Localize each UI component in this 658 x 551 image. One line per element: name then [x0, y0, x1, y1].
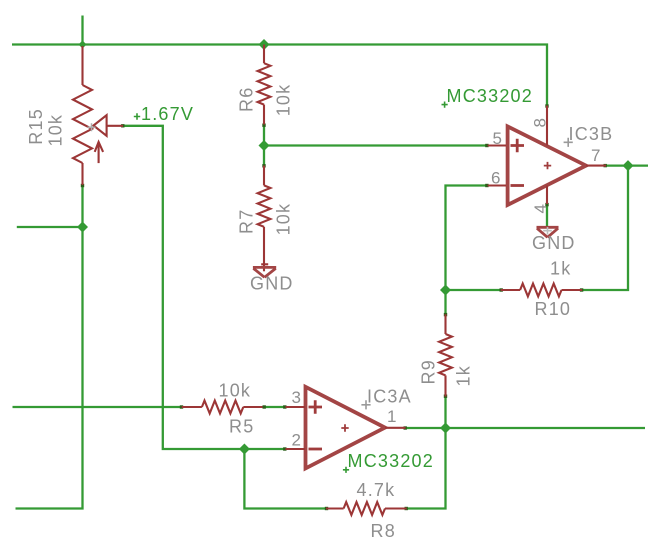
svg-text:MC33202: MC33202	[447, 86, 533, 106]
resistor R6	[258, 45, 271, 125]
resistor R7	[258, 166, 271, 272]
svg-text:1k: 1k	[454, 365, 474, 386]
svg-text:R9: R9	[419, 359, 439, 384]
junction D (264,145.5)	[259, 140, 270, 151]
wire endpoint dots	[81, 104, 607, 510]
junction A (82.5,44.5)	[79, 41, 87, 49]
wire left stub at y=227	[17, 226, 83, 228]
label +1.67V net	[134, 113, 140, 119]
op-amp U IC3B	[488, 106, 606, 205]
svg-text:5: 5	[493, 129, 503, 148]
junction B (264,44.5)	[259, 39, 270, 50]
wire IC3B output feedback down to R10 right	[582, 166, 628, 290]
svg-text:4: 4	[531, 204, 550, 214]
op-amp IC3B value label MC33202	[442, 102, 448, 108]
wire IC3B pin 4 to GND	[546, 204, 548, 228]
resistor R10	[501, 284, 583, 297]
svg-text:R10: R10	[535, 299, 572, 319]
wire left horizontal into R5	[13, 406, 182, 408]
svg-text:GND: GND	[532, 233, 576, 253]
svg-text:1k: 1k	[550, 259, 571, 279]
svg-text:MC33202: MC33202	[348, 451, 434, 471]
svg-text:R8: R8	[371, 521, 396, 541]
svg-text:10k: 10k	[46, 114, 66, 147]
svg-text:GND: GND	[250, 274, 294, 294]
op-amp U IC3A	[286, 387, 406, 469]
ground symbol under IC3B pin 4	[537, 227, 559, 237]
resistor R9	[439, 314, 452, 396]
svg-text:10k: 10k	[219, 381, 252, 401]
wire IC3B pin 6 down to R9/R10 node	[446, 186, 488, 291]
svg-text:3: 3	[292, 388, 302, 407]
wire R5 to IC3A pin 3	[264, 406, 286, 408]
svg-text:IC3A: IC3A	[367, 387, 412, 407]
wire node to IC3B pin 5	[264, 144, 488, 146]
svg-text:R6: R6	[237, 87, 257, 112]
resistor R8	[326, 502, 407, 515]
wire node to R10 left	[446, 289, 501, 291]
wire node to R9 top	[444, 290, 446, 314]
svg-text:1: 1	[387, 407, 397, 426]
wire top stub above junction A	[81, 16, 83, 45]
wire left vertical below R15 down to bottom-left stub	[16, 185, 83, 509]
svg-text:2: 2	[292, 430, 302, 449]
svg-text:R15: R15	[26, 108, 46, 145]
svg-text:10k: 10k	[274, 203, 294, 236]
wire R6 bottom to junction node	[263, 125, 265, 166]
junction H (244.4,449)	[239, 444, 250, 455]
junction G (445.5,428)	[440, 423, 451, 434]
op-amp IC3B name label	[564, 138, 573, 147]
wire IC3A output to right edge	[405, 427, 645, 429]
svg-text:IC3B: IC3B	[569, 124, 614, 144]
junction E (445.5,290)	[440, 285, 451, 296]
svg-text:8: 8	[530, 118, 549, 128]
svg-text:1.67V: 1.67V	[141, 104, 194, 124]
op-amp IC3A name label	[361, 400, 370, 409]
svg-text:7: 7	[591, 146, 601, 165]
wire IC3B output to right edge	[605, 164, 648, 166]
potentiometer R15	[73, 46, 123, 185]
wire 1.67V net from wiper to IC3A pin 2	[123, 126, 286, 449]
svg-text:6: 6	[491, 169, 501, 188]
wire R9 bottom to output node	[444, 397, 446, 429]
wire feedback from pin2 node down to R8 left	[244, 449, 326, 509]
ground symbol under R7	[253, 264, 276, 277]
wire top horizontal V+ rail to IC3B pin 8	[12, 45, 547, 106]
svg-text:4.7k: 4.7k	[357, 480, 396, 500]
resistor R5	[182, 401, 263, 414]
svg-text:10k: 10k	[274, 84, 294, 117]
junction C (82.5,227)	[77, 222, 88, 233]
junction F (628,165.6)	[623, 160, 634, 171]
svg-text:R5: R5	[229, 417, 254, 437]
svg-text:R7: R7	[237, 209, 257, 234]
wire R8 right up to output node	[407, 428, 446, 509]
op-amp IC3A value label MC33202	[343, 467, 349, 473]
